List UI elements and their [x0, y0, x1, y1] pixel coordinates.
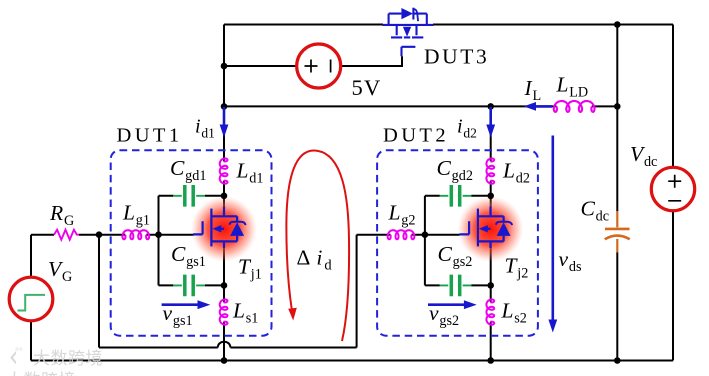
- thermal glow DUT2: [458, 196, 524, 262]
- wire top rail: [224, 24, 673, 26]
- arrow i_d1: [220, 107, 229, 138]
- transistor T_j2 (MOSFET with body diode): [460, 207, 504, 249]
- svg-text:DUT3: DUT3: [424, 45, 489, 69]
- svg-text:大数跨境: 大数跨境: [33, 349, 103, 368]
- svg-text:5V: 5V: [352, 75, 382, 100]
- arrow v_gs1: [162, 300, 211, 309]
- source 5V: [297, 44, 341, 88]
- inductor L_g2: [388, 230, 415, 239]
- inductor L_g1: [122, 230, 149, 239]
- inductor L_d1: [220, 158, 228, 183]
- watermark: [6, 345, 103, 376]
- DUT1 dashed box: [111, 150, 272, 336]
- inductor L_LD: [554, 101, 595, 112]
- wire 5V gate loop: [224, 56, 402, 66]
- wire DUT2 drain/source column: [490, 106, 492, 360]
- arrow v_ds: [548, 136, 557, 333]
- wire bottom rail: [31, 360, 673, 362]
- red circulating current loop: [286, 150, 349, 341]
- capacitor C_gd2: [440, 185, 472, 207]
- inductor L_s2: [486, 299, 494, 324]
- arrow I_L: [524, 102, 552, 111]
- arrow i_d2: [486, 107, 495, 138]
- capacitor C_gs2: [440, 275, 472, 297]
- wire Cdc branch: [616, 25, 618, 361]
- wire Vdc branch: [672, 25, 674, 361]
- thermal glow DUT1: [191, 196, 257, 262]
- wire DUT1 gate-cap branch: [159, 196, 225, 286]
- wire VG leads: [30, 235, 32, 361]
- svg-text:大数跨境: 大数跨境: [6, 371, 76, 376]
- resistor R_G: [54, 230, 79, 240]
- inductor L_s1: [220, 299, 228, 324]
- wire gate path DUT1: [31, 234, 194, 236]
- inductor L_d2: [486, 158, 494, 183]
- svg-text:DUT1: DUT1: [117, 125, 183, 147]
- wire DUT2 gate-cap branch: [425, 196, 491, 286]
- DUT2 dashed box: [377, 150, 538, 336]
- wire mid rail (switch node): [224, 105, 617, 107]
- transistor DUT3 (high-side MOSFET with body diode): [383, 8, 434, 57]
- wire left vertical (drain bus of DUT1 column): [223, 25, 225, 108]
- svg-text:°°: °°: [15, 347, 23, 358]
- wire DUT1 drain/source column: [223, 106, 225, 360]
- capacitor C_dc: [605, 211, 630, 253]
- wire gate return to DUT2 with hop: [99, 235, 460, 348]
- capacitor C_gs1: [173, 275, 205, 297]
- DUT3 bulk arrow: [403, 27, 411, 37]
- arrow v_gs2: [428, 300, 477, 309]
- capacitor C_gd1: [173, 185, 205, 207]
- svg-text:DUT2: DUT2: [383, 125, 449, 147]
- source V_dc: [651, 167, 694, 210]
- source V_G (step source): [9, 277, 53, 321]
- transistor T_j1 (MOSFET with body diode): [193, 207, 237, 249]
